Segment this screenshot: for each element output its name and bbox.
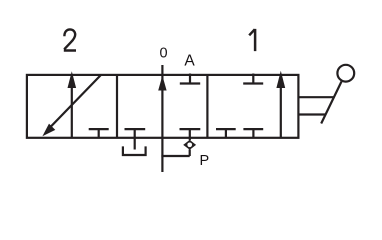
lever lower prong [298, 113, 325, 115]
position 2: diagonal flow line [48, 75, 101, 130]
drain stem below body [134, 138, 136, 150]
arrowhead tank line 0 [158, 76, 166, 91]
svg-text:A: A [184, 53, 195, 70]
position 0: bottom-right blocked port T with stem to gauge coupling [180, 129, 201, 140]
valve body outline [27, 75, 299, 138]
label 1 [249, 29, 255, 51]
position 2: vertical flow line [71, 78, 73, 138]
arrowhead position 2 diagonal [42, 124, 55, 137]
arrowhead position 1 vertical [276, 71, 285, 88]
svg-text:0: 0 [159, 46, 167, 62]
position 0: top blocked port A T [180, 74, 200, 84]
lever knob [337, 65, 354, 82]
P branch horizontal wire [161, 155, 189, 157]
label 2 [64, 29, 76, 50]
position 1: bottom-right blocked port T [243, 129, 263, 138]
lever upper prong [298, 96, 333, 98]
position 1: bottom-left blocked port T [216, 129, 236, 138]
gauge coupling diamond [183, 140, 196, 150]
lever arm [321, 82, 341, 124]
tank line 0 [161, 65, 163, 172]
position 2: bottom blocked port T [89, 129, 109, 138]
position 0: bottom-left blocked port T [125, 129, 146, 138]
drain reservoir bracket [123, 146, 146, 155]
position 1: vertical flow line [280, 74, 282, 138]
stem from coupling down [189, 149, 191, 156]
svg-text:P: P [199, 153, 209, 169]
position 1: top blocked port T [243, 74, 263, 84]
divider between position 0 and 1 [206, 75, 208, 138]
arrowhead position 2 vertical [68, 71, 77, 88]
gauge coupling circle hole [187, 142, 192, 147]
divider between position 2 and 0 [116, 75, 118, 138]
